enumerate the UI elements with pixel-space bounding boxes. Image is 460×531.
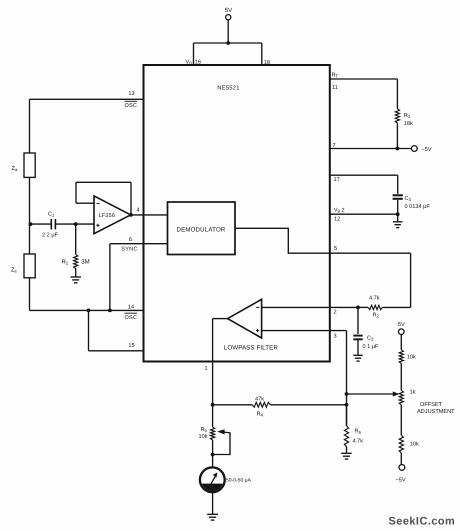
svg-text:OFFSET: OFFSET <box>420 402 443 408</box>
svg-text:OSC: OSC <box>125 103 138 109</box>
svg-text:11: 11 <box>332 85 338 91</box>
svg-text:−5V: −5V <box>422 147 432 153</box>
svg-text:0 0134 μF: 0 0134 μF <box>405 204 431 210</box>
svg-text:C3: C3 <box>405 196 412 202</box>
svg-text:10k: 10k <box>407 354 416 361</box>
svg-text:NE5521: NE5521 <box>217 85 239 92</box>
svg-text:R2: R2 <box>373 312 380 318</box>
svg-text:1: 1 <box>204 366 207 372</box>
svg-text:7: 7 <box>333 143 336 149</box>
svg-text:C1: C1 <box>48 212 55 218</box>
svg-text:5: 5 <box>334 246 337 252</box>
svg-text:50-0-50 μA: 50-0-50 μA <box>226 477 252 483</box>
svg-text:3: 3 <box>333 334 336 340</box>
svg-text:DEMODULATOR: DEMODULATOR <box>176 226 225 233</box>
svg-text:15: 15 <box>128 343 134 349</box>
svg-text:12: 12 <box>334 216 340 222</box>
svg-text:LF356: LF356 <box>99 213 116 219</box>
svg-text:5V: 5V <box>398 322 405 328</box>
svg-text:17: 17 <box>334 177 340 183</box>
svg-text:13: 13 <box>128 91 134 97</box>
svg-text:10k: 10k <box>199 433 208 440</box>
svg-text:LOWPASS FILTER: LOWPASS FILTER <box>224 344 279 351</box>
svg-text:Zs: Zs <box>11 268 17 274</box>
svg-text:ADJUSTMENT: ADJUSTMENT <box>417 409 455 415</box>
svg-text:2: 2 <box>333 310 336 316</box>
svg-text:OSC: OSC <box>125 315 138 321</box>
svg-text:R6: R6 <box>201 427 208 433</box>
svg-text:2 2 μF: 2 2 μF <box>42 233 59 239</box>
svg-text:14: 14 <box>128 305 134 311</box>
svg-text:SeekIC.com: SeekIC.com <box>389 515 456 527</box>
svg-text:1k: 1k <box>410 388 416 395</box>
svg-text:R4: R4 <box>257 411 264 417</box>
svg-text:47k: 47k <box>255 395 264 402</box>
svg-text:C2: C2 <box>367 335 374 341</box>
svg-text:6: 6 <box>129 237 132 243</box>
svg-text:VB 2: VB 2 <box>334 207 345 213</box>
svg-text:−5V: −5V <box>396 478 406 484</box>
svg-text:R5: R5 <box>355 429 362 435</box>
svg-text:18k: 18k <box>404 120 413 127</box>
svg-text:R3: R3 <box>404 113 411 119</box>
svg-text:RT: RT <box>332 73 339 79</box>
svg-text:10k: 10k <box>410 441 419 448</box>
svg-text:4.7k: 4.7k <box>369 295 380 302</box>
svg-text:0 1 μF: 0 1 μF <box>363 344 380 350</box>
svg-text:SYNC: SYNC <box>121 247 137 253</box>
svg-text:4: 4 <box>136 207 139 213</box>
svg-text:Za: Za <box>12 166 19 172</box>
svg-text:3M: 3M <box>81 259 89 266</box>
svg-text:4.7k: 4.7k <box>353 438 364 445</box>
svg-text:5V: 5V <box>225 7 232 14</box>
